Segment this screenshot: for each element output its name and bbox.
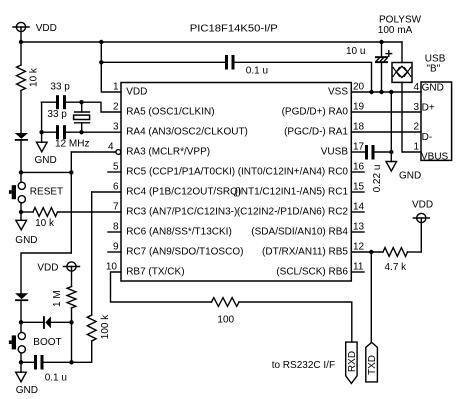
svg-text:RC4 (P1B/C12OUT/SRQ): RC4 (P1B/C12OUT/SRQ) bbox=[126, 187, 241, 198]
resistor 100 bbox=[212, 298, 240, 307]
junction dot (21,172.4) bbox=[19, 170, 23, 174]
pin 5 stub bbox=[108, 171, 121, 173]
svg-text:GND: GND bbox=[16, 385, 38, 396]
svg-text:14: 14 bbox=[353, 202, 365, 213]
svg-text:GND: GND bbox=[15, 235, 37, 246]
svg-text:RA3 (MCLR*/VPP): RA3 (MCLR*/VPP) bbox=[126, 147, 210, 158]
svg-text:POLYSW: POLYSW bbox=[379, 15, 422, 26]
svg-text:0.1 u: 0.1 u bbox=[246, 66, 268, 77]
connector flag RXD bbox=[346, 342, 358, 383]
svg-text:VDD: VDD bbox=[412, 200, 433, 211]
power symbol VDD (right) bbox=[413, 213, 429, 252]
pin 9 stub bbox=[108, 251, 121, 253]
svg-text:RC6 (AN8/SS*/T13CKI): RC6 (AN8/SS*/T13CKI) bbox=[126, 227, 232, 238]
wire MCLR to pin 4 bbox=[71, 151, 116, 153]
wire caps common leg x=41.6 bbox=[41, 102, 43, 142]
svg-text:GND: GND bbox=[35, 155, 57, 166]
wire D+ pin 19 to USB bbox=[351, 111, 421, 113]
capacitor 33 p (top, OSC1) bbox=[41, 95, 81, 109]
svg-text:RB7 (TX/CK): RB7 (TX/CK) bbox=[126, 267, 184, 278]
junction dot (371.5,92) bbox=[369, 90, 373, 94]
capacitor 10 u (electrolytic) bbox=[375, 42, 392, 92]
resistor 10 k (MCLR pullup) bbox=[17, 65, 26, 91]
svg-text:VSS: VSS bbox=[328, 87, 348, 98]
svg-text:4: 4 bbox=[108, 142, 114, 153]
svg-text:4: 4 bbox=[413, 82, 419, 93]
ground (below RESET) bbox=[16, 212, 27, 230]
wire pin 12 RB5 node bbox=[351, 251, 383, 253]
svg-text:7: 7 bbox=[113, 202, 119, 213]
svg-text:0.1 u: 0.1 u bbox=[45, 373, 67, 384]
svg-text:to RS232C I/F: to RS232C I/F bbox=[272, 360, 335, 371]
pin 8 stub bbox=[108, 231, 121, 233]
svg-text:100 k: 100 k bbox=[100, 314, 111, 339]
wire RC4 down to 100k x=91.7 bbox=[91, 192, 93, 315]
junction dot (71.3,172.4) bbox=[69, 170, 73, 174]
svg-text:1 M: 1 M bbox=[52, 290, 63, 307]
ground (crystal) bbox=[37, 142, 48, 152]
svg-text:D+: D+ bbox=[422, 103, 435, 114]
svg-text:1: 1 bbox=[413, 142, 419, 153]
power symbol VDD (top left) bbox=[13, 22, 29, 42]
svg-text:100 mA: 100 mA bbox=[378, 25, 413, 36]
svg-text:RXD: RXD bbox=[347, 351, 358, 372]
svg-text:20: 20 bbox=[353, 82, 365, 93]
svg-text:11: 11 bbox=[353, 262, 364, 273]
svg-text:15: 15 bbox=[353, 182, 365, 193]
svg-text:VDD: VDD bbox=[36, 23, 57, 34]
svg-text:13: 13 bbox=[353, 222, 365, 233]
svg-text:9: 9 bbox=[113, 242, 119, 253]
svg-text:VDD: VDD bbox=[37, 263, 58, 274]
svg-text:17: 17 bbox=[353, 142, 365, 153]
svg-text:BOOT: BOOT bbox=[33, 337, 61, 348]
svg-text:6: 6 bbox=[113, 182, 119, 193]
svg-text:12 MHz: 12 MHz bbox=[55, 139, 89, 150]
svg-text:0.22 u: 0.22 u bbox=[372, 165, 383, 193]
IC U1 PIC18F14K50 box bbox=[121, 83, 351, 282]
svg-text:VDD: VDD bbox=[126, 87, 147, 98]
junction dot (101.3,62.3) bbox=[99, 60, 103, 64]
wire VSS to VUSB node x=391.3 bbox=[390, 92, 392, 152]
wire crystal top to pin 2 bbox=[82, 102, 122, 112]
svg-text:"B": "B" bbox=[427, 64, 441, 75]
wire polyswitch to VBUS bbox=[402, 82, 421, 152]
svg-text:(INT1/C12IN1-/AN5) RC1: (INT1/C12IN1-/AN5) RC1 bbox=[235, 187, 349, 198]
svg-text:(DT/RX/AN11) RB5: (DT/RX/AN11) RB5 bbox=[262, 247, 348, 258]
wire 100k to 0.1u node bbox=[72, 341, 92, 362]
diode D2 (cathode down) bbox=[15, 293, 28, 322]
svg-text:VUSB: VUSB bbox=[321, 147, 349, 158]
svg-text:RC5 (CCP1/P1A/T0CKI): RC5 (CCP1/P1A/T0CKI) bbox=[126, 167, 235, 178]
junction dot (21,362.3) bbox=[19, 360, 23, 364]
wire VDD to resistor 10k bbox=[20, 42, 22, 65]
svg-text:RC3 (AN7/P1C/C12IN3-): RC3 (AN7/P1C/C12IN3-) bbox=[126, 207, 237, 218]
svg-text:(SDA/SDI/AN10) RB4: (SDA/SDI/AN10) RB4 bbox=[251, 227, 348, 238]
svg-text:1: 1 bbox=[113, 82, 119, 93]
svg-text:RA4 (AN3/OSC2/CLKOUT): RA4 (AN3/OSC2/CLKOUT) bbox=[126, 127, 248, 138]
wire button to resistor bbox=[21, 211, 33, 213]
svg-text:RA5 (OSC1/CLKIN): RA5 (OSC1/CLKIN) bbox=[126, 107, 214, 118]
svg-text:3: 3 bbox=[413, 102, 419, 113]
pin 6 wire RC4 bbox=[92, 191, 121, 193]
svg-text:TXD: TXD bbox=[367, 355, 378, 375]
junction dot (101.3,42) bbox=[99, 40, 103, 44]
pushbutton RESET bbox=[9, 172, 25, 212]
svg-text:3: 3 bbox=[113, 122, 119, 133]
resistor 4.7 k bbox=[383, 248, 408, 257]
wire bypass rail y=62.3 bbox=[101, 61, 225, 63]
wire 1M to node bbox=[71, 308, 73, 322]
polyswitch F1 bbox=[392, 42, 412, 82]
svg-text:33 p: 33 p bbox=[47, 109, 67, 120]
svg-text:10 u: 10 u bbox=[346, 46, 365, 57]
ground (VUSB) bbox=[386, 152, 397, 171]
junction dot (71.5,322.3) bbox=[69, 320, 73, 324]
svg-text:(PGC/D-) RA1: (PGC/D-) RA1 bbox=[284, 127, 348, 138]
junction dot (391.3,92) bbox=[389, 90, 393, 94]
junction dot (81.5,102.2) bbox=[79, 100, 83, 104]
pin 4 inversion bubble bbox=[116, 150, 121, 155]
junction dot (81.5,132.2) bbox=[79, 130, 83, 134]
wire resistor to pin 7 RC3 bbox=[58, 211, 122, 213]
junction dot (71.5,362.3) bbox=[69, 360, 73, 364]
USB connector J1 box bbox=[421, 82, 452, 160]
svg-text:GND: GND bbox=[422, 83, 444, 94]
svg-text:(PGD/D+) RA0: (PGD/D+) RA0 bbox=[282, 107, 349, 118]
junction dot (371.3,252) bbox=[369, 250, 373, 254]
svg-text:RC7 (AN9/SDO/T1OSCO): RC7 (AN9/SDO/T1OSCO) bbox=[126, 247, 243, 258]
svg-text:16: 16 bbox=[353, 162, 365, 173]
junction dot (41.6,132.2) bbox=[39, 130, 43, 134]
svg-text:RESET: RESET bbox=[30, 187, 63, 198]
wire VSS pin 20 to USB GND bbox=[351, 91, 421, 93]
wire bypass cap to VSS bbox=[235, 62, 372, 92]
junction dot (21,212) bbox=[19, 210, 23, 214]
svg-text:5: 5 bbox=[113, 162, 119, 173]
ground (BOOT) bbox=[16, 362, 27, 382]
svg-text:10 k: 10 k bbox=[29, 67, 40, 87]
pin 13 stub bbox=[351, 231, 364, 233]
wire MCLR vertical x=71.3 bbox=[70, 152, 72, 253]
wire crystal bottom to pin 3 bbox=[82, 131, 122, 133]
svg-text:(C12IN2-/P1D/AN6) RC2: (C12IN2-/P1D/AN6) RC2 bbox=[237, 207, 349, 218]
pin 15 stub bbox=[351, 191, 364, 193]
svg-text:10: 10 bbox=[106, 262, 118, 273]
svg-text:8: 8 bbox=[113, 222, 119, 233]
diode D1 (cathode down) bbox=[15, 133, 28, 172]
junction dot (21,322.3) bbox=[19, 320, 23, 324]
pushbutton BOOT bbox=[9, 322, 25, 362]
svg-text:4.7 k: 4.7 k bbox=[385, 262, 408, 273]
svg-text:33 p: 33 p bbox=[50, 82, 70, 93]
diode D3 (horizontal, cathode left) bbox=[21, 316, 72, 329]
capacitor 0.22 u (VUSB) bbox=[351, 145, 391, 160]
svg-text:2: 2 bbox=[413, 122, 419, 133]
svg-text:19: 19 bbox=[353, 102, 365, 113]
wire pin 10 RB7 to 100 ohm bbox=[111, 272, 212, 302]
wire VDD drop to pin 1 x=101.3 bbox=[101, 42, 121, 92]
capacitor 0.1 u (BOOT) bbox=[21, 355, 72, 370]
svg-text:PIC18F14K50-I/P: PIC18F14K50-I/P bbox=[190, 24, 278, 35]
junction dot (381.5,42) bbox=[379, 40, 383, 44]
wire 4.7k to VDD bbox=[408, 251, 422, 253]
capacitor 33 p (bottom, OSC2) bbox=[42, 125, 82, 139]
junction dot (21,42) bbox=[19, 40, 23, 44]
svg-text:100: 100 bbox=[217, 315, 234, 326]
svg-text:12: 12 bbox=[353, 242, 365, 253]
wire D- pin 18 to USB bbox=[351, 131, 421, 133]
power symbol VDD (BOOT) bbox=[64, 262, 80, 287]
svg-text:10 k: 10 k bbox=[35, 218, 55, 229]
svg-text:D-: D- bbox=[422, 132, 433, 143]
wire 100 ohm to RXD bbox=[239, 302, 352, 342]
svg-text:18: 18 bbox=[353, 122, 365, 133]
svg-text:(INT0/C12IN+/AN4) RC0: (INT0/C12IN+/AN4) RC0 bbox=[238, 167, 349, 178]
connector flag TXD bbox=[366, 342, 378, 382]
pin 14 stub bbox=[351, 211, 364, 213]
capacitor 0.1 u (bypass, top) bbox=[225, 55, 235, 70]
pin 16 stub bbox=[351, 171, 364, 173]
wire resistor to diode bbox=[20, 91, 22, 134]
junction dot (391.3,152) bbox=[389, 150, 393, 154]
resistor 100 k bbox=[87, 315, 96, 341]
crystal X1 12 MHz bbox=[74, 102, 90, 132]
svg-text:GND: GND bbox=[399, 171, 421, 182]
wire MCLR branch down to BOOT diode bbox=[21, 253, 71, 293]
pin 11 stub bbox=[351, 271, 364, 273]
resistor 1 M bbox=[67, 287, 76, 309]
wire node to MCLR riser y=172.4 bbox=[21, 171, 71, 173]
wire VDD rail y=42 bbox=[21, 41, 402, 43]
svg-text:VBUS: VBUS bbox=[421, 152, 449, 163]
wire RB5 to TXD bbox=[370, 252, 372, 342]
svg-text:(SCL/SCK) RB6: (SCL/SCK) RB6 bbox=[276, 267, 348, 278]
resistor 10 k (horizontal to RC3) bbox=[33, 208, 58, 217]
junction dot (381.5,92) bbox=[379, 90, 383, 94]
wire node down to 0.1u row bbox=[71, 322, 73, 362]
svg-text:2: 2 bbox=[113, 102, 119, 113]
